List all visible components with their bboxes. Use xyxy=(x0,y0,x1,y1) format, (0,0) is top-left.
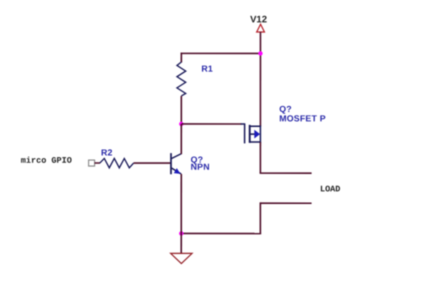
svg-text:LOAD: LOAD xyxy=(320,184,340,194)
wire port to R2 xyxy=(95,162,100,164)
resistor R1 xyxy=(177,62,186,96)
svg-text:mirco GPIO: mirco GPIO xyxy=(21,156,72,166)
wire LOAD bottom down xyxy=(259,202,261,233)
label Q? (NPN) xyxy=(191,155,204,165)
node V12 label xyxy=(250,14,267,25)
wire collector up to gate node xyxy=(180,124,182,154)
svg-text:R1: R1 xyxy=(201,64,213,74)
label MOSFET P xyxy=(279,113,326,123)
ground xyxy=(171,253,192,263)
wire top horizontal R1 to V12 xyxy=(181,52,261,54)
power symbol V12 xyxy=(257,24,265,32)
junction at V12 rail xyxy=(258,51,262,55)
wire gate node to MOSFET gate xyxy=(181,123,241,125)
label LOAD xyxy=(320,184,340,194)
svg-text:R2: R2 xyxy=(101,148,113,158)
label R2 xyxy=(101,148,113,158)
wire LOAD bottom horizontal xyxy=(260,202,311,204)
svg-text:V12: V12 xyxy=(250,14,267,25)
label mirco GPIO xyxy=(21,156,72,166)
junction at gate node xyxy=(179,122,183,126)
transistor Q? NPN xyxy=(171,153,181,174)
wire R2 to base xyxy=(134,162,171,164)
wire V12 vertical to MOSFET source xyxy=(259,32,261,126)
label Q? (MOSFET) xyxy=(279,104,292,114)
svg-text:MOSFET P: MOSFET P xyxy=(279,113,326,123)
wire R1 bottom lead xyxy=(180,96,182,124)
wire emitter down to ground node xyxy=(180,174,182,234)
svg-text:NPN: NPN xyxy=(191,162,210,172)
wire drain to LOAD top xyxy=(260,172,312,174)
transistor Q? MOSFET P xyxy=(241,123,261,143)
label NPN xyxy=(191,162,210,172)
junction at ground node xyxy=(179,231,183,235)
wire MOSFET drain down xyxy=(259,142,261,173)
wire bottom horizontal to emitter node xyxy=(181,232,261,234)
label R1 xyxy=(201,64,213,74)
resistor R2 xyxy=(100,158,134,167)
wire R1 top lead xyxy=(180,53,182,63)
port square (GPIO input pin) xyxy=(89,160,95,166)
wire ground stem xyxy=(180,233,182,253)
